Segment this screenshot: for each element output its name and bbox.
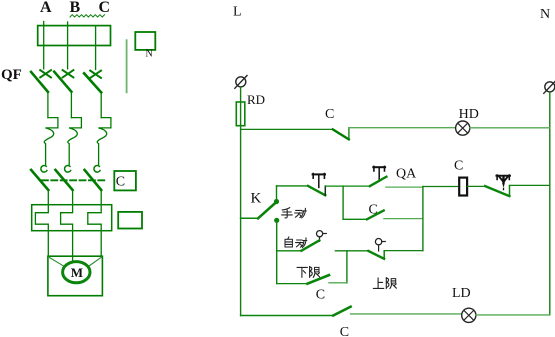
float switch upper-limit stem [378,245,380,251]
start button QA actuator T [373,166,385,179]
contactor C main pole3 blade [85,170,102,190]
terminal N [545,82,555,92]
wire pole1 [47,92,49,118]
wire C-aux left [343,218,367,220]
breaker QF pole3 cross [90,71,101,78]
wire QA right [386,186,423,188]
contactor C main pole3 ring [94,165,100,172]
lower-limit NO blade [307,275,329,284]
wire phase B drop [67,22,69,69]
svg-text:HD: HD [459,107,479,122]
terminal block X0 [38,26,111,46]
stop button actuator T [313,174,325,188]
motor M frame [48,256,103,296]
thermal element FR heater1 [44,118,58,165]
contactor label box C [114,171,136,190]
C-aux NO blade [367,211,384,220]
wavy underline [70,15,105,17]
bottom contact C blade [333,307,350,316]
coil C body [459,178,467,196]
contactor C main pole2 ring [65,165,71,172]
thermal relay FR element1 + wire [35,190,48,256]
wire top row left [241,128,333,130]
svg-text:C: C [316,288,325,303]
svg-text:QF: QF [1,67,22,83]
N aux box top right [135,32,155,50]
wire limit to N [510,184,550,186]
aux box (relay contact box) [118,212,142,229]
fuse RD body [236,102,245,126]
svg-text:RD: RD [247,92,265,107]
svg-text:K: K [251,191,262,207]
svg-text:C: C [454,158,463,173]
label upper-limit (hand-drawn 上限) [373,278,396,289]
svg-text:N: N [540,7,550,22]
contactor C main pole1 ring [41,165,47,172]
wire auto row right [335,250,368,252]
wire coil to limit switch [467,185,485,187]
breaker QF pole1 blade [31,72,48,92]
breaker QF pole3 blade [84,73,101,92]
wire right branch vertical [422,187,424,251]
wire manual row middle [325,185,370,187]
svg-text:C: C [116,174,125,189]
motor M lead right [88,257,102,267]
stray vertical lead [126,40,128,92]
selector K stub [241,217,259,219]
float switch auto tail [323,233,327,235]
svg-text:QA: QA [396,166,417,181]
start button QA NO blade [370,177,387,186]
wire pole2 [70,92,72,118]
wire C-aux right [384,218,423,220]
float switch auto NO blade [301,240,319,250]
selector K contact dot auto [274,218,279,223]
wire L bus vertical [240,87,242,316]
wire manual row left [277,185,309,187]
thermal relay FR box [32,205,112,231]
wire lower-limit row left [277,283,308,285]
float switch upper-limit post [383,251,385,259]
svg-text:B: B [70,0,81,16]
label auto (hand-drawn 自动) [285,237,307,248]
contact C (HD branch) blade [333,129,349,139]
thermal relay FR element2 + wire [61,190,73,261]
wire phase A drop [43,22,45,69]
breaker QF pole2 blade [54,72,71,92]
wire pole3 [100,92,102,117]
svg-text:N: N [146,49,153,60]
float switch upper-limit tail [382,241,386,243]
wire bottom row right [351,313,462,315]
wire bottom row left [241,315,334,317]
wire top row to N [470,127,550,129]
breaker QF pole2 cross [63,70,74,77]
contactor C main pole2 blade [55,170,72,190]
svg-text:A: A [40,0,52,16]
svg-text:C: C [325,107,334,122]
lamp HD [456,121,470,135]
float switch auto stem [319,237,321,241]
wire to coil [423,186,459,188]
selector K blade [258,202,276,218]
thermal relay FR element3 + wire [88,190,101,256]
stop button NC blade [308,186,325,195]
wire bottom to N [476,314,550,316]
thermal element FR heater3 [97,118,111,165]
wire top row right [349,127,456,129]
contactor linkage dashed line [42,179,107,181]
lamp LD [462,308,476,322]
breaker QF pole1 cross [40,70,51,77]
limit switch post [509,186,511,197]
wire lower-limit link vertical [346,251,348,283]
wire auto row left [277,250,302,252]
selector K contact dot manual [274,199,279,204]
svg-text:C: C [99,0,111,16]
float switch upper-limit ring [375,239,381,245]
wire upper-limit right [384,250,423,252]
svg-text:M: M [71,265,83,280]
terminal L [236,77,246,87]
svg-text:L: L [233,5,242,20]
motor M lead left [49,257,65,267]
contact C post [348,128,350,140]
wire phase C drop [95,26,97,70]
motor M circle [63,262,90,283]
float switch auto ring [317,231,323,237]
float switch upper-limit NC blade [368,251,384,259]
svg-text:LD: LD [452,286,471,301]
wire N bus vertical [549,92,551,315]
wire lower-limit row right [329,282,347,284]
label lower-limit (hand-drawn 下限) [297,266,320,277]
thermal element FR heater2 [68,118,82,165]
wire manual riser [276,186,278,202]
limit switch NC blade [485,186,509,196]
wire drop to C-aux [342,186,344,219]
svg-text:C: C [340,325,349,337]
limit switch actuator (Y head) [496,175,510,190]
wire auto riser [276,220,278,283]
stop button post [324,186,326,195]
label manual (hand-drawn 手动) [282,208,307,218]
contactor C main pole1 blade [31,170,48,190]
